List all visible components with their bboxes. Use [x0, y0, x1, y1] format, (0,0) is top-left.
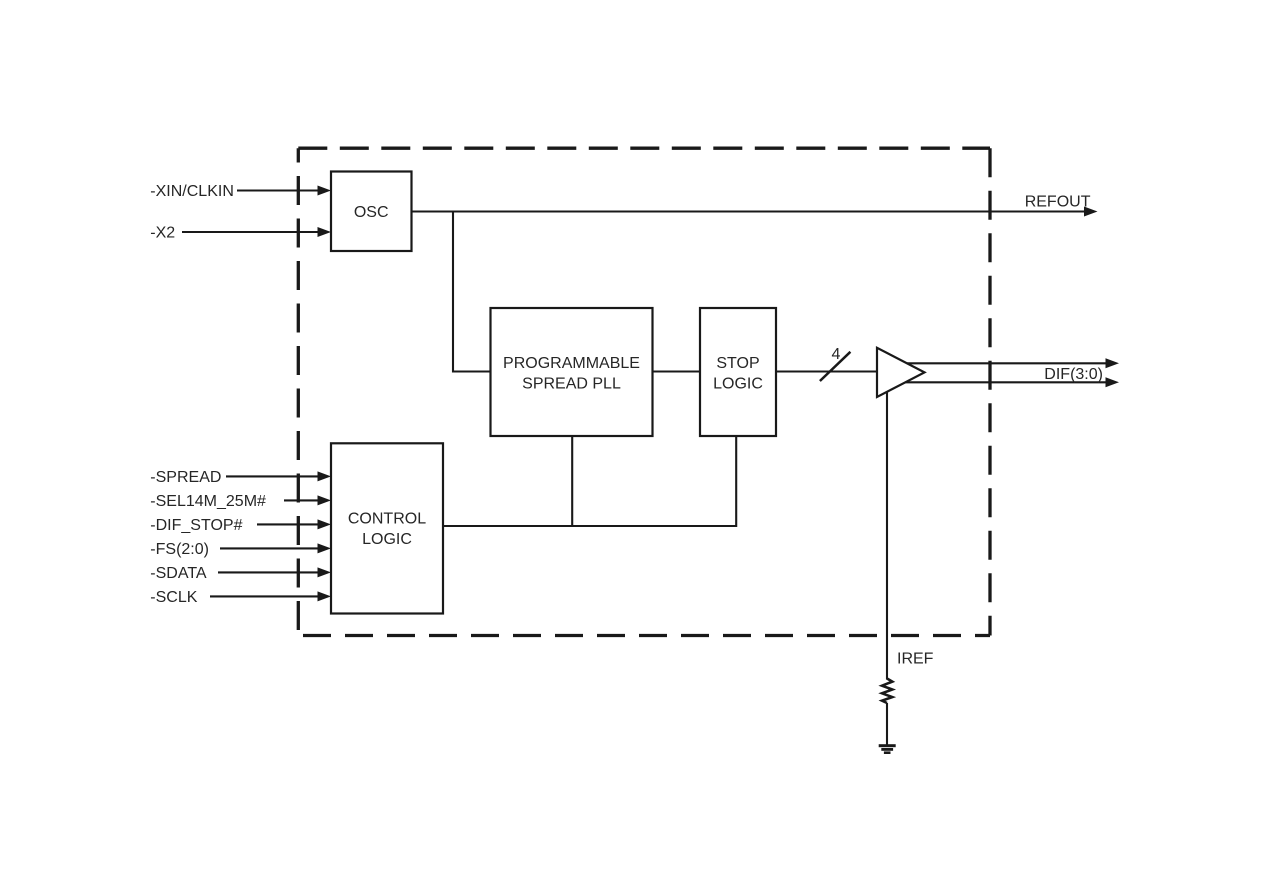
svg-text:PROGRAMMABLE: PROGRAMMABLE [503, 355, 640, 372]
wire DIF_STOP# [257, 523, 319, 525]
wire buffer down to IREF resistor [886, 390, 888, 680]
wire SDATA [218, 571, 319, 573]
wire X2 to OSC [182, 231, 319, 233]
arrow SDATA [318, 567, 332, 577]
svg-text:STOP: STOP [716, 355, 759, 372]
svg-text:OSC: OSC [354, 204, 389, 221]
svg-text:LOGIC: LOGIC [713, 376, 763, 393]
wire STOP LOGIC to output buffer [776, 370, 877, 372]
block OSC [331, 172, 412, 252]
svg-text:SPREAD PLL: SPREAD PLL [522, 376, 621, 393]
wire resistor to ground [886, 703, 888, 745]
wire SCLK [210, 595, 319, 597]
block STOP LOGIC [700, 308, 776, 436]
svg-text:-X2: -X2 [150, 225, 175, 242]
wire CONTROL LOGIC to STOP LOGIC [443, 436, 736, 526]
svg-text:-SEL14M_25M#: -SEL14M_25M# [150, 493, 266, 510]
wire FS(2:0) [220, 547, 319, 549]
wire DIF top [905, 362, 1106, 364]
wire OSC output down to PLL input [453, 212, 491, 372]
arrow SEL14M_25M# [318, 495, 332, 505]
resistor RREF [882, 679, 892, 704]
ground [879, 744, 896, 754]
wire SEL14M_25M# [284, 499, 319, 501]
bus width slash [820, 352, 851, 381]
wire junction up to PLL bottom [571, 436, 573, 526]
svg-text:IREF: IREF [897, 651, 934, 668]
svg-text:-SPREAD: -SPREAD [150, 469, 221, 486]
arrow SCLK [318, 591, 332, 601]
arrow into OSC pin XIN [318, 186, 332, 196]
output buffer U1 [877, 348, 925, 397]
arrow SPREAD [318, 471, 332, 481]
wire REFOUT from OSC [412, 210, 1085, 212]
arrow DIF_STOP# [318, 519, 332, 529]
svg-text:DIF(3:0): DIF(3:0) [1044, 366, 1103, 383]
svg-text:4: 4 [832, 346, 841, 363]
arrow DIF top [1106, 358, 1120, 368]
arrow REFOUT [1084, 207, 1098, 217]
dashed chip boundary [298, 148, 990, 635]
wire SPREAD [226, 475, 319, 477]
svg-text:-FS(2:0): -FS(2:0) [150, 541, 209, 558]
svg-text:REFOUT: REFOUT [1025, 193, 1091, 210]
wire PLL to STOP LOGIC [653, 370, 701, 372]
arrow FS(2:0) [318, 543, 332, 553]
svg-text:-XIN/CLKIN: -XIN/CLKIN [150, 183, 234, 200]
svg-text:CONTROL: CONTROL [348, 511, 426, 528]
wire XIN/CLKIN to OSC [237, 189, 319, 191]
svg-text:-SDATA: -SDATA [150, 565, 207, 582]
wire DIF bottom [905, 381, 1106, 383]
svg-text:-SCLK: -SCLK [150, 589, 197, 606]
block CONTROL LOGIC [331, 443, 443, 613]
svg-text:-DIF_STOP#: -DIF_STOP# [150, 517, 242, 534]
arrow into OSC pin X2 [318, 227, 332, 237]
block PROGRAMMABLE SPREAD PLL [491, 308, 653, 436]
arrow DIF bottom [1106, 377, 1120, 387]
svg-text:LOGIC: LOGIC [362, 531, 412, 548]
